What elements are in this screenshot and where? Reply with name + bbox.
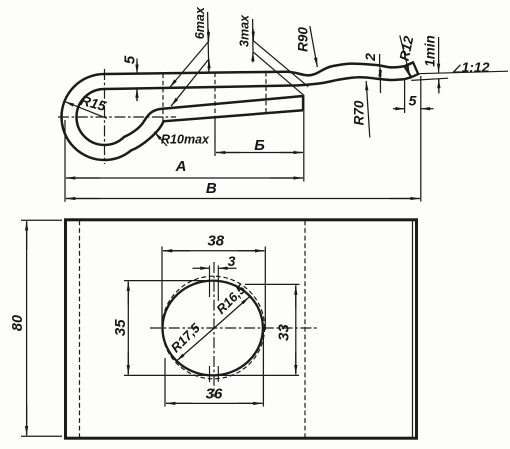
svg-text:36: 36: [206, 386, 223, 403]
dimension 2 strip thickness: [379, 54, 382, 93]
svg-text:R12: R12: [397, 34, 417, 62]
arc center line right: [217, 266, 219, 383]
svg-text:R10max: R10max: [161, 133, 210, 147]
svg-text:80: 80: [10, 315, 26, 331]
svg-text:R15: R15: [79, 92, 108, 114]
leader R10max: [154, 132, 167, 146]
svg-text:Б: Б: [254, 137, 265, 154]
label 6max leaders: [170, 12, 210, 106]
svg-text:3max: 3max: [238, 14, 252, 47]
svg-text:6max: 6max: [193, 6, 207, 39]
hole horizontal centerline: [150, 327, 318, 329]
svg-text:33: 33: [276, 324, 293, 341]
tip end quad: [404, 62, 418, 77]
eye inner contour: [77, 89, 304, 145]
plan inner thin edge right: [412, 220, 414, 438]
hole vertical centerline: [213, 262, 215, 397]
hidden line at x=163: [162, 74, 164, 123]
dimension 80: [21, 220, 62, 436]
leader R12: [400, 36, 410, 74]
hole oval contour: [163, 281, 263, 376]
svg-text:1:12: 1:12: [461, 59, 489, 75]
svg-text:R90: R90: [296, 27, 311, 52]
dimension 3 offset: [193, 267, 237, 269]
leader R17,5: [177, 329, 214, 361]
dimension A: [65, 120, 303, 202]
plan hidden edge middle: [304, 221, 306, 438]
svg-text:В: В: [206, 180, 217, 197]
leader R70: [366, 81, 370, 138]
dimension 5 strap thickness: [136, 59, 138, 102]
dimension 36: [165, 332, 263, 407]
svg-text:5: 5: [409, 93, 417, 109]
leader R15: [65, 102, 107, 119]
dimension B (Б): [215, 95, 304, 182]
svg-text:3: 3: [228, 253, 236, 269]
strap bottom edge: [105, 77, 412, 89]
eye horizontal centerline: [58, 116, 176, 118]
plan hidden edge left: [79, 221, 81, 438]
taper line 1:12 upper: [418, 71, 508, 74]
svg-text:R17,5: R17,5: [168, 320, 204, 356]
svg-text:2: 2: [362, 53, 378, 62]
taper line 1:12 lower: [411, 78, 448, 80]
svg-text:35: 35: [112, 319, 129, 336]
svg-text:1min: 1min: [423, 35, 438, 67]
svg-text:R70: R70: [352, 100, 367, 125]
label 3max leaders: [253, 19, 309, 95]
angle symbol: [454, 65, 462, 72]
hidden line at x=266: [265, 72, 267, 112]
dimension 1min: [438, 37, 440, 94]
arc center line left: [209, 266, 211, 383]
leader R90: [310, 26, 318, 67]
eye outer contour: [62, 74, 304, 160]
hole dashed circle d38: [162, 276, 265, 379]
dimension 38: [162, 247, 265, 331]
strap top edge: [105, 62, 414, 75]
plan view outline: [66, 220, 417, 438]
hidden line at x=215: [214, 73, 216, 119]
eye vertical centerline: [104, 69, 106, 164]
dimension 33: [245, 284, 300, 374]
leader R16,5: [214, 297, 250, 329]
dimension В (overall): [66, 198, 420, 200]
dimension 5 at tip: [393, 76, 434, 202]
main leaf end face: [302, 96, 304, 110]
dimension 35: [124, 281, 299, 376]
svg-text:38: 38: [207, 233, 224, 250]
svg-text:А: А: [175, 158, 187, 175]
svg-text:5: 5: [122, 55, 139, 64]
